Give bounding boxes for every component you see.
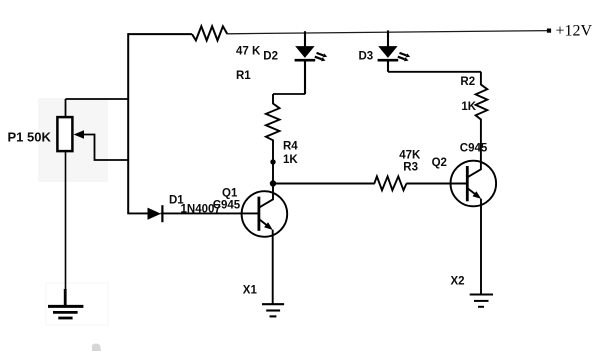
faint panel behind potentiometer bbox=[38, 98, 108, 182]
wire D1 row bbox=[127, 212, 257, 214]
svg-text:R4: R4 bbox=[283, 141, 298, 153]
transistor Q2 bbox=[451, 161, 497, 207]
svg-text:1K: 1K bbox=[461, 101, 476, 113]
wire wiper bbox=[84, 135, 128, 161]
ground X1 bbox=[262, 303, 284, 305]
wiper arrow bbox=[74, 130, 84, 139]
svg-text:R3: R3 bbox=[403, 162, 418, 174]
diode D1 bbox=[148, 208, 162, 220]
wire D2 to R4 bbox=[273, 93, 305, 95]
ground (left, P1) bbox=[48, 305, 83, 308]
wire collector node to R3 bbox=[273, 183, 375, 185]
LED D3 arrows bbox=[398, 53, 407, 59]
svg-text:P1 50K: P1 50K bbox=[8, 130, 52, 145]
svg-text:R2: R2 bbox=[460, 76, 475, 88]
wire top rail left bbox=[128, 33, 192, 35]
resistor R3 bbox=[374, 176, 406, 190]
wire Q1 emitter bbox=[272, 230, 274, 304]
cursor smudge bbox=[92, 344, 101, 351]
svg-text:1K: 1K bbox=[283, 154, 298, 166]
svg-text:47 K: 47 K bbox=[236, 46, 261, 58]
ground X2 bbox=[470, 294, 493, 296]
terminal +12V bbox=[547, 29, 551, 33]
resistor R2 bbox=[476, 72, 488, 162]
svg-text:D3: D3 bbox=[359, 51, 374, 63]
svg-text:Q1: Q1 bbox=[222, 188, 238, 200]
wire pot bottom bbox=[65, 151, 67, 291]
transistor Q1 bbox=[242, 191, 288, 237]
wire R3 to Q2 base bbox=[406, 183, 466, 185]
wire pot top bbox=[66, 99, 129, 117]
faint grid near left ground bbox=[46, 283, 108, 325]
wire top rail right bbox=[227, 31, 549, 34]
node dot bbox=[270, 159, 275, 164]
svg-text:X1: X1 bbox=[243, 285, 258, 297]
svg-text:+12V: +12V bbox=[556, 23, 593, 40]
node dot collector Q1 bbox=[270, 180, 276, 186]
wire D3 to R2 bbox=[388, 71, 481, 73]
svg-text:47K: 47K bbox=[399, 150, 421, 162]
svg-text:X2: X2 bbox=[451, 276, 465, 288]
svg-text:C945: C945 bbox=[213, 200, 241, 212]
svg-text:C945: C945 bbox=[460, 143, 488, 155]
wire left vertical bbox=[127, 33, 129, 213]
svg-text:R1: R1 bbox=[236, 70, 251, 82]
LED D2 bbox=[304, 31, 306, 46]
wire Q2 emitter bbox=[480, 199, 482, 294]
svg-text:Q2: Q2 bbox=[432, 157, 447, 169]
LED D3 bbox=[387, 30, 389, 46]
resistor R4 bbox=[266, 94, 280, 184]
svg-text:D2: D2 bbox=[263, 51, 278, 63]
potentiometer P1 body bbox=[57, 117, 72, 151]
resistor R1 bbox=[192, 26, 227, 40]
LED D2 arrows bbox=[315, 53, 324, 59]
